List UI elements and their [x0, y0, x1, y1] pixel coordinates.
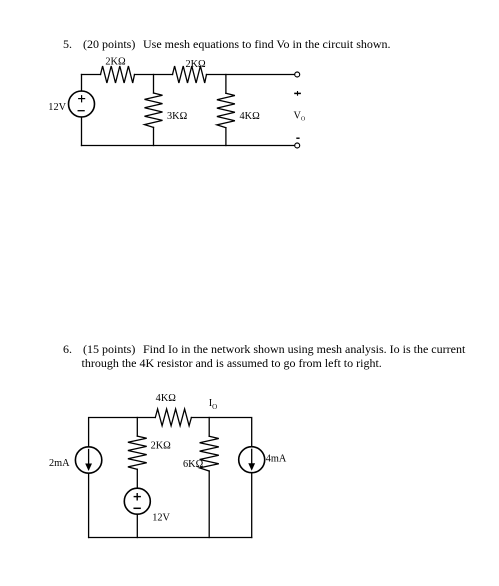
problem 5 statement [63, 38, 72, 51]
label 2mA (I1) [49, 458, 70, 469]
svg-text:4KΩ: 4KΩ [156, 393, 177, 404]
resistor R7 6KΩ (vertical) [200, 436, 219, 471]
wire: 12V bottom to bottom rail [136, 514, 138, 537]
label Vo (output voltage) [294, 111, 306, 123]
svg-text:2KΩ: 2KΩ [151, 440, 172, 451]
wire: source bottom to bottom rail [81, 117, 83, 146]
label + (output polarity) [294, 91, 301, 96]
svg-text:4KΩ: 4KΩ [240, 111, 261, 122]
wire: 3K bottom to bottom rail [153, 127, 155, 145]
wire: 6K bottom to bottom rail [208, 471, 210, 538]
resistor R4 4KΩ (vertical) [217, 93, 235, 127]
wire: 4mA bottom to bottom rail [251, 473, 253, 538]
wire: 4K bottom to bottom rail [225, 128, 227, 146]
wire: branch 3 top drop [208, 418, 210, 437]
label Io (current) [209, 398, 218, 411]
label 3KΩ (R3) [167, 111, 188, 122]
svg-text:12V: 12V [152, 513, 170, 524]
label 4mA (I2) [266, 453, 287, 464]
svg-text:VO: VO [294, 111, 306, 123]
wire: node A drop to 3K [153, 75, 155, 94]
wire: top rail right of 4K [191, 418, 251, 447]
svg-text:IO: IO [209, 398, 218, 411]
svg-text:2mA: 2mA [49, 458, 70, 469]
label - (output polarity) [296, 137, 299, 139]
resistor R1 2KΩ (horizontal) [101, 66, 135, 83]
resistor R5 4KΩ (horizontal) [155, 409, 191, 426]
label 6KΩ (R7) [183, 459, 204, 470]
label 12V (V1) [48, 102, 66, 113]
label 2KΩ (R1) [105, 57, 126, 68]
label 4KΩ (R5) [156, 393, 177, 404]
wire: top rail between R1 and R2 (through node A) [135, 74, 173, 76]
svg-text:2KΩ: 2KΩ [105, 57, 126, 68]
wire: node B drop to 4K [225, 75, 227, 94]
label 2KΩ (R2) [185, 59, 206, 70]
terminal: bottom output (open circle) [295, 143, 300, 148]
svg-text:3KΩ: 3KΩ [167, 111, 188, 122]
wire: branch 2 top drop [136, 418, 138, 437]
wire: left vertical from source top to top rail [81, 75, 83, 92]
current source I1 2mA (arrow down) [75, 447, 101, 473]
svg-text:12V: 12V [48, 102, 66, 113]
resistor R6 2KΩ (vertical) [128, 436, 147, 469]
svg-text:6KΩ: 6KΩ [183, 459, 204, 470]
wire: 2K bottom to 12V top [136, 469, 138, 488]
wire: 2mA bottom to bottom rail [88, 473, 90, 537]
terminal: top output (open circle) [295, 72, 300, 77]
problem 6 statement [63, 343, 72, 356]
wire: top rail left of 4K [89, 418, 156, 447]
voltage source V1 12V [69, 91, 95, 117]
label 2KΩ (R6) [151, 440, 172, 451]
svg-text:2KΩ: 2KΩ [185, 59, 206, 70]
current source I2 4mA (arrow down) [239, 447, 265, 473]
wire: bottom rail [82, 145, 295, 147]
label 12V (V2) [152, 513, 170, 524]
resistor R2 2KΩ (horizontal) [173, 66, 207, 83]
svg-text:4mA: 4mA [266, 453, 287, 464]
resistor R3 3KΩ (vertical) [145, 93, 163, 127]
voltage source V2 12V [124, 488, 150, 514]
wire: top rail from R2 to output terminal [207, 74, 295, 76]
wire: bottom rail [89, 537, 252, 539]
label 4KΩ (R4) [240, 111, 261, 122]
wire: top rail left segment [82, 74, 101, 76]
